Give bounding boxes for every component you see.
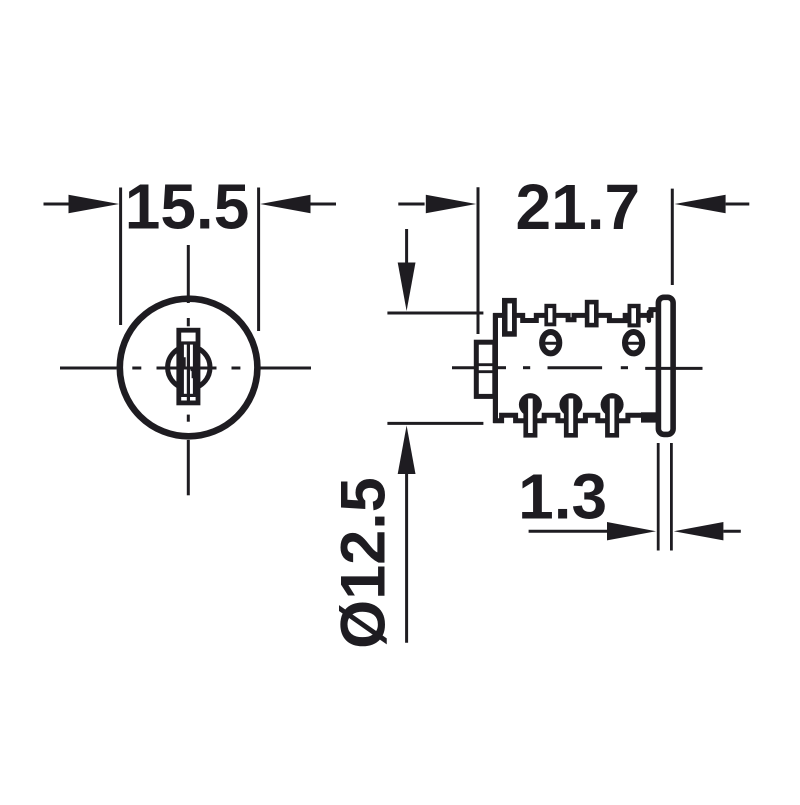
dim 21.7 extension line left	[477, 187, 480, 334]
keyhole inner rectangle	[182, 343, 194, 395]
keyhole outer rectangle	[179, 330, 198, 403]
dia 12.5 down arrow	[398, 263, 416, 312]
dim 15.5 arrow left	[69, 195, 120, 213]
dim 21.7 arrow left	[426, 195, 476, 213]
bottom right corner fill block	[641, 412, 657, 422]
dim 21.7 leader right	[726, 203, 750, 206]
dia 12.5 up arrow	[398, 426, 416, 475]
left tab inner line 2	[476, 370, 495, 373]
screw head theta 2	[625, 332, 642, 353]
top pin 1	[502, 298, 517, 337]
dim 21.7 extension line right	[671, 189, 674, 285]
top pin 2	[544, 304, 556, 327]
side view castellated bottom edge	[493, 415, 658, 421]
dim 1.3 extension line right	[670, 443, 673, 551]
bottom pin 2	[559, 393, 582, 438]
dim 1.3 leader left	[529, 530, 608, 533]
dim 1.3 extension line left	[657, 443, 660, 551]
top pin 4	[628, 304, 641, 328]
side view centerline	[452, 366, 703, 370]
bottom pin 1	[519, 393, 542, 438]
dim 15.5 extension line right	[257, 188, 260, 332]
front view: cylinder housing circle	[120, 299, 258, 437]
dim 1.3 leader right	[723, 530, 740, 533]
dim 21.7 arrow right	[675, 195, 726, 213]
left tab (cam)	[476, 342, 495, 396]
dim 1.3 arrow left	[607, 522, 656, 540]
dim 15.5 leader right	[310, 203, 336, 206]
dia 12.5 lower leader	[405, 473, 408, 643]
front vertical centerline	[187, 245, 190, 495]
dim 21.7 leader left	[398, 203, 424, 206]
front horizontal centerline	[60, 367, 311, 370]
front view: plug core circle	[168, 346, 210, 388]
side view body left edge	[493, 313, 498, 423]
top protrusion near flange	[647, 312, 651, 321]
bottom pin 3	[601, 393, 624, 438]
dim 15.5 extension line left	[119, 188, 122, 326]
svg-text:21.7: 21.7	[516, 171, 641, 243]
dia 12.5 top extension line	[387, 312, 483, 315]
screw head theta 1	[542, 332, 559, 353]
svg-text:Ø12.5: Ø12.5	[329, 477, 399, 649]
flange plate	[658, 297, 673, 434]
left tab inner line 1	[476, 363, 495, 366]
dia 12.5 bottom extension line	[387, 422, 483, 425]
dim 15.5 leader left	[44, 203, 69, 206]
dim 1.3 arrow right	[674, 522, 724, 540]
top pin 3	[585, 300, 599, 328]
svg-text:15.5: 15.5	[125, 171, 250, 243]
side view castellated top edge	[493, 310, 658, 321]
dim 15.5 arrow right	[260, 195, 310, 213]
keyhole right step	[191, 370, 193, 378]
keyhole center key line	[187, 343, 190, 401]
dia 12.5 upper leader	[405, 229, 408, 263]
svg-text:1.3: 1.3	[518, 461, 607, 533]
keyhole left step	[182, 359, 185, 369]
